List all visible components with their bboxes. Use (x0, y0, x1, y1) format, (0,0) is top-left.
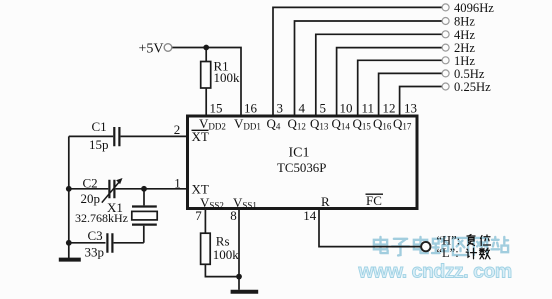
svg-text:C3: C3 (88, 228, 103, 243)
svg-text:11: 11 (362, 100, 375, 115)
svg-text:14: 14 (303, 208, 317, 223)
svg-text:16: 16 (244, 100, 258, 115)
svg-text:1: 1 (174, 175, 181, 190)
svg-text:1Hz: 1Hz (454, 54, 475, 68)
svg-text:www. cndzz. com: www. cndzz. com (358, 261, 512, 283)
svg-text:4: 4 (299, 100, 306, 115)
svg-text:4096Hz: 4096Hz (454, 1, 494, 15)
svg-text:32.768kHz: 32.768kHz (75, 211, 128, 225)
svg-text:C2: C2 (83, 175, 98, 190)
svg-text:R: R (321, 194, 330, 209)
svg-text:8Hz: 8Hz (454, 15, 475, 29)
svg-text:20p: 20p (81, 191, 101, 206)
svg-text:+5V: +5V (139, 42, 164, 57)
svg-text:IC1: IC1 (289, 146, 310, 161)
svg-text:8: 8 (230, 208, 237, 223)
svg-text:100k: 100k (214, 70, 241, 85)
svg-text:5: 5 (320, 100, 327, 115)
svg-text:TC5036P: TC5036P (277, 161, 326, 175)
svg-text:XT: XT (192, 129, 209, 144)
svg-text:0.25Hz: 0.25Hz (454, 80, 491, 94)
svg-text:3: 3 (277, 100, 284, 115)
svg-text:C1: C1 (92, 119, 107, 134)
svg-text:10: 10 (340, 100, 353, 115)
svg-text:15: 15 (210, 100, 223, 115)
svg-text:13: 13 (404, 100, 417, 115)
svg-text:4Hz: 4Hz (454, 28, 475, 42)
svg-text:15p: 15p (89, 137, 109, 152)
svg-text:100k: 100k (213, 247, 240, 262)
svg-text:“H”:: “H”: (437, 233, 461, 247)
svg-text:33p: 33p (85, 245, 105, 260)
svg-text:2: 2 (174, 122, 181, 137)
svg-text:7: 7 (195, 208, 202, 223)
svg-text:0.5Hz: 0.5Hz (454, 67, 485, 81)
svg-text:“L”:: “L”: (437, 246, 459, 260)
svg-text:12: 12 (383, 100, 396, 115)
svg-text:FC: FC (366, 193, 382, 208)
